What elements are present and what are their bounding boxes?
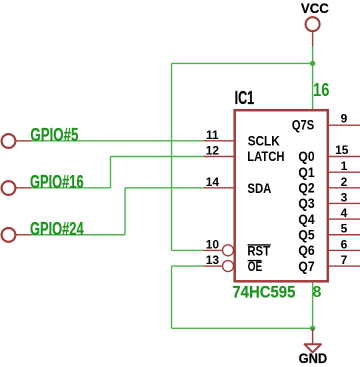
svg-text:9: 9 (341, 111, 348, 125)
svg-text:7: 7 (341, 253, 348, 267)
svg-text:6: 6 (341, 237, 348, 251)
svg-text:RST: RST (247, 244, 270, 259)
svg-text:Q7: Q7 (298, 259, 314, 274)
svg-text:Q6: Q6 (298, 243, 315, 258)
svg-text:Q4: Q4 (298, 212, 315, 227)
svg-text:14: 14 (206, 175, 220, 189)
svg-text:SCLK: SCLK (248, 134, 280, 149)
svg-text:16: 16 (313, 80, 329, 100)
svg-text:8: 8 (313, 284, 322, 301)
svg-text:GPIO#16: GPIO#16 (30, 171, 84, 192)
svg-text:GND: GND (299, 351, 328, 367)
svg-text:LATCH: LATCH (247, 149, 284, 164)
svg-text:10: 10 (206, 237, 220, 251)
svg-text:Q2: Q2 (298, 181, 315, 196)
svg-text:4: 4 (341, 206, 348, 220)
svg-text:Q5: Q5 (298, 228, 315, 243)
svg-text:13: 13 (206, 253, 220, 267)
svg-text:12: 12 (206, 144, 220, 158)
svg-text:74HC595: 74HC595 (232, 282, 295, 301)
svg-text:11: 11 (206, 128, 219, 142)
svg-text:1: 1 (341, 159, 348, 173)
svg-text:Q0: Q0 (298, 149, 314, 164)
svg-text:Q7S: Q7S (292, 117, 314, 132)
svg-text:GPIO#24: GPIO#24 (30, 218, 84, 239)
svg-text:5: 5 (341, 222, 348, 236)
svg-text:GPIO#5: GPIO#5 (30, 124, 78, 145)
svg-text:Q3: Q3 (298, 196, 315, 211)
svg-text:IC1: IC1 (235, 87, 255, 108)
svg-text:2: 2 (341, 175, 348, 189)
svg-text:15: 15 (335, 143, 349, 157)
svg-text:3: 3 (341, 190, 348, 204)
svg-text:Q1: Q1 (298, 165, 315, 180)
svg-text:VCC: VCC (301, 0, 329, 16)
svg-text:SDA: SDA (247, 181, 271, 196)
